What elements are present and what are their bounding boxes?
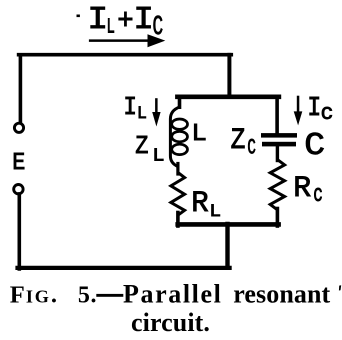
svg-text:I: I bbox=[87, 1, 108, 37]
svg-text:L: L bbox=[191, 120, 207, 148]
inductor L coil body (spine) bbox=[170, 107, 179, 167]
wire: E lower terminal down to bottom-left corner bbox=[17, 194, 21, 269]
wire: tank bottom rail bbox=[178, 222, 279, 227]
terminal: upper input circle bbox=[14, 123, 23, 132]
svg-text:FIG.: FIG. bbox=[10, 282, 58, 309]
svg-text:+: + bbox=[117, 6, 133, 38]
svg-text:c: c bbox=[321, 101, 334, 127]
svg-text:E: E bbox=[12, 149, 25, 176]
svg-text:resonant: resonant bbox=[233, 280, 330, 309]
wire: bottom horizontal return bbox=[18, 266, 230, 270]
svg-text:R: R bbox=[191, 187, 208, 220]
resistor RC zigzag bbox=[270, 160, 284, 210]
wire: L branch bottom lead bbox=[176, 213, 180, 227]
printing speck right of caption line bbox=[339, 285, 341, 290]
inductor L loop 1 bbox=[172, 119, 188, 129]
wire: C branch top lead bbox=[275, 97, 279, 134]
svg-text:L: L bbox=[137, 105, 147, 125]
arrow: total current IL+IC (points right) bbox=[89, 34, 165, 47]
wire: right vertical from top wire down to tank circuit bbox=[227, 53, 231, 99]
caption: long dash bbox=[96, 294, 123, 297]
svg-text:I: I bbox=[307, 92, 321, 123]
resistor RL zigzag bbox=[171, 173, 185, 216]
wire: top horizontal (IL+IC feed) bbox=[19, 53, 232, 57]
wire: center stub joining tank bottom rail to bottom return bbox=[225, 224, 229, 266]
wire: lead between capacitor C and resistor RC bbox=[276, 146, 279, 161]
wire: lead between inductor L and resistor RL bbox=[176, 164, 179, 175]
inductor L loop 3 bbox=[172, 144, 188, 154]
svg-text:circuit.: circuit. bbox=[131, 308, 210, 337]
arrow: IC branch current (points down) bbox=[294, 96, 303, 126]
svg-text:I: I bbox=[123, 94, 137, 123]
wire: L branch top lead bbox=[178, 97, 182, 109]
inductor L loop 2 bbox=[172, 131, 188, 141]
svg-text:I: I bbox=[133, 2, 154, 38]
svg-text:C: C bbox=[304, 129, 325, 164]
svg-text:L: L bbox=[152, 145, 164, 166]
capacitor C bottom plate bbox=[262, 142, 296, 147]
svg-text:5.: 5. bbox=[78, 283, 97, 309]
arrow: IL branch current (points down) bbox=[152, 98, 160, 126]
svg-text:L: L bbox=[209, 201, 221, 222]
svg-text:Z: Z bbox=[135, 133, 148, 162]
svg-text:Parallel: Parallel bbox=[123, 280, 222, 309]
svg-text:R: R bbox=[293, 171, 311, 205]
wire: tank top rail bbox=[177, 95, 279, 100]
svg-text:c: c bbox=[313, 182, 323, 209]
svg-text:Z: Z bbox=[231, 124, 246, 158]
terminal: lower input circle bbox=[14, 185, 23, 194]
svg-text:C: C bbox=[153, 11, 164, 42]
svg-text:L: L bbox=[106, 16, 114, 40]
wire: C branch bottom lead bbox=[276, 209, 280, 227]
capacitor C top plate bbox=[261, 133, 297, 138]
printing speck left of IL+IC label bbox=[77, 15, 80, 18]
wire: E upper terminal up to top-left corner bbox=[19, 57, 23, 123]
svg-text:C: C bbox=[247, 134, 255, 160]
